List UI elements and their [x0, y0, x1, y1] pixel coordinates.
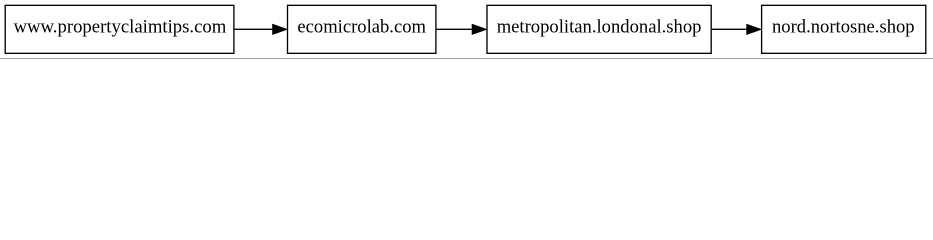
wire arrow 2 shaft — [437, 28, 474, 30]
arrowhead 2 — [472, 25, 485, 34]
arrowhead 1 — [273, 25, 286, 34]
svg-text:metropolitan.londonal.shop: metropolitan.londonal.shop — [497, 17, 702, 38]
wire arrow 1 shaft — [235, 28, 274, 30]
node box metropolitan.londonal.shop — [487, 5, 711, 53]
svg-text:www.propertyclaimtips.com: www.propertyclaimtips.com — [14, 17, 227, 38]
svg-text:nord.nortosne.shop: nord.nortosne.shop — [772, 17, 915, 38]
divider line bottom — [0, 58, 933, 59]
node box nord.nortosne.shop — [762, 5, 926, 53]
node box www.propertyclaimtips.com — [5, 5, 234, 53]
arrowhead 3 — [747, 25, 760, 34]
svg-text:ecomicrolab.com: ecomicrolab.com — [297, 17, 426, 38]
node box ecomicrolab.com — [288, 5, 436, 53]
wire arrow 3 shaft — [712, 28, 748, 30]
